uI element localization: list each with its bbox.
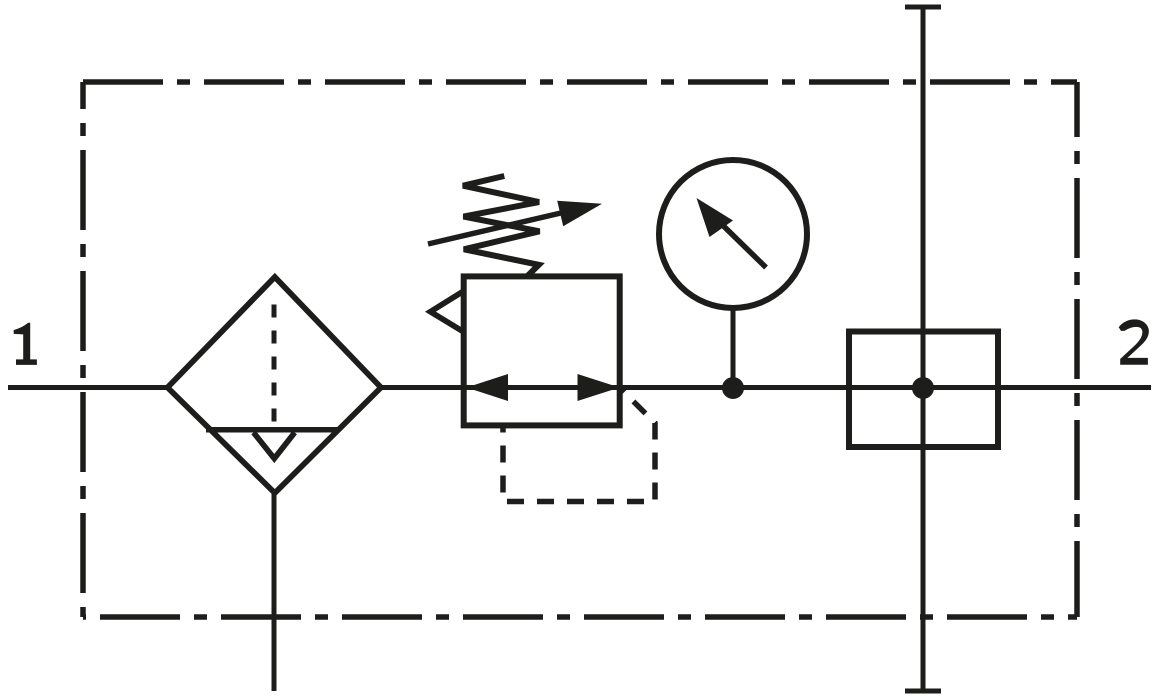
wire: regulator to valve — [620, 385, 1000, 390]
valve actuation top T-bar — [905, 5, 941, 10]
wire: condensate drain line — [272, 493, 277, 691]
filter F1 body (diamond) — [168, 277, 382, 493]
filter F1 element (dashed centre line) — [272, 292, 277, 430]
regulator body — [464, 276, 620, 425]
wire: valve actuation line (vertical) — [921, 7, 926, 691]
wire: valve to port 2 outlet — [1000, 385, 1151, 390]
wire: port 1 inlet line — [8, 385, 169, 390]
wire: filter to regulator — [381, 385, 464, 390]
wire: gauge drop line — [731, 308, 736, 388]
enclosure border top (dash-dot) — [83, 79, 1077, 85]
enclosure border right (dash-dot) — [1074, 82, 1080, 617]
regulator spring (zigzag) — [463, 176, 540, 276]
regulator adjustment arrowhead — [557, 201, 602, 227]
pressure gauge needle arrowhead — [697, 198, 734, 237]
pressure gauge needle shaft — [723, 226, 766, 268]
valve body — [849, 332, 998, 448]
regulator adjustment arrow shaft — [428, 213, 563, 245]
regulator relief vent (open triangle) — [430, 291, 463, 331]
regulator flow arrowhead right — [578, 374, 620, 401]
enclosure border left (dash-dot) — [80, 82, 86, 617]
enclosure border bottom (dash-dot) — [83, 614, 1077, 620]
filter F1 separator chord — [206, 427, 340, 433]
junction dot at gauge tap — [722, 377, 744, 399]
regulator flow arrowhead left — [467, 374, 509, 401]
filter F1 water separator (V) — [254, 433, 295, 459]
wire: regulator flow path — [464, 385, 620, 390]
regulator pilot line (dashed) — [503, 388, 655, 502]
valve actuation bottom T-bar — [905, 689, 941, 694]
junction dot in valve — [912, 377, 934, 399]
port label 1 — [14, 323, 37, 365]
port label 2 — [1119, 319, 1149, 364]
pressure gauge body (circle) — [659, 160, 807, 308]
